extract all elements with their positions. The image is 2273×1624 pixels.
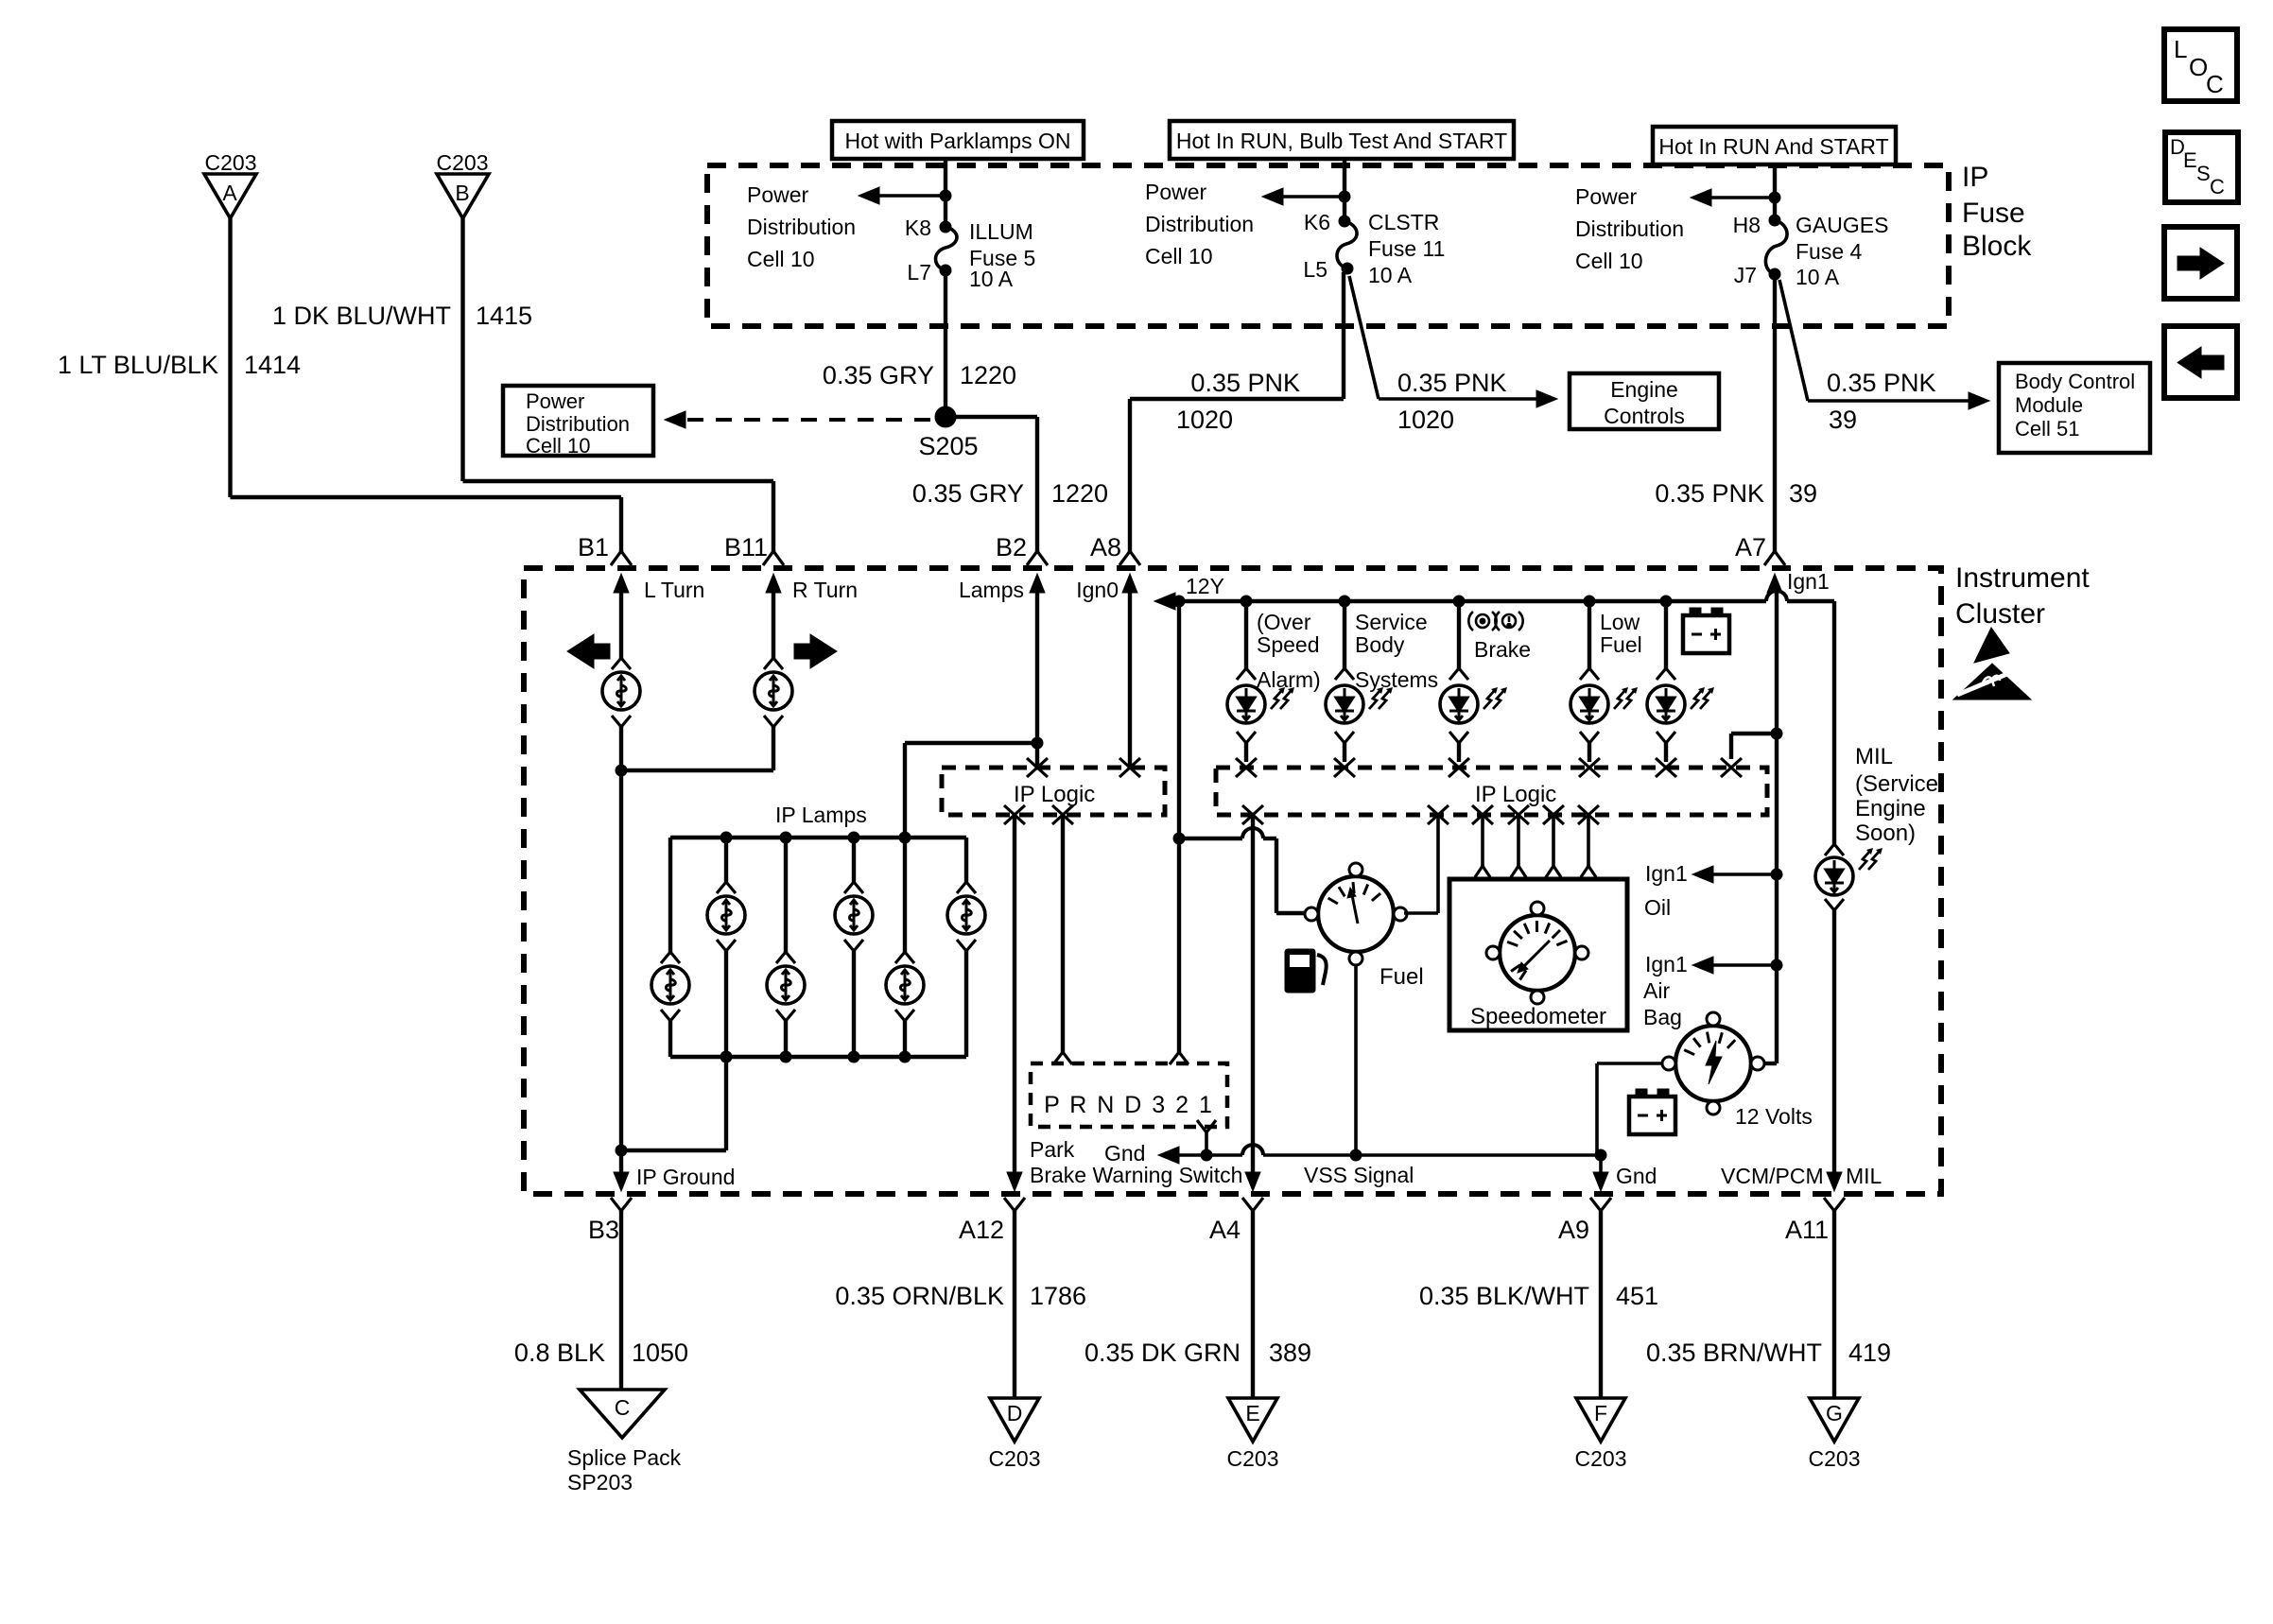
svg-text:Fuel: Fuel (1600, 632, 1642, 657)
wire from Hot In RUN And START to fuse GAUGES (1773, 164, 1777, 220)
svg-text:Low: Low (1600, 610, 1640, 634)
svg-text:J7: J7 (1734, 263, 1757, 287)
dashed wire from S205 to Power Distribution Cell 10 box (687, 418, 934, 422)
MIL wire from 12Y bus (1832, 601, 1836, 844)
svg-text:Fuse: Fuse (1962, 198, 2025, 229)
svg-text:MIL: MIL (1846, 1164, 1883, 1188)
IP Logic box 1 (942, 768, 1165, 815)
svg-text:Speedometer: Speedometer (1470, 1004, 1606, 1029)
wire B3 to splice pack (619, 1211, 623, 1390)
Gnd drop to A9 (1599, 1155, 1603, 1176)
svg-text:IP Logic: IP Logic (1475, 782, 1556, 807)
Ign1 wire from A7 (1775, 588, 1778, 1063)
svg-text:E: E (2183, 148, 2197, 172)
svg-text:ILLUM: ILLUM (969, 219, 1033, 244)
svg-text:A8: A8 (1090, 533, 1121, 561)
wire A9 to connector F (1599, 1211, 1603, 1398)
svg-text:Cell 10: Cell 10 (1575, 249, 1643, 273)
svg-text:C203: C203 (1809, 1446, 1861, 1471)
ESD sensitive device symbol (1974, 628, 2009, 663)
IP lamp column x=831 (low row bulb) (780, 832, 791, 843)
connector triangle D (C203) (990, 1398, 1039, 1442)
12V gauge ground wire (1597, 1062, 1663, 1065)
svg-text:L7: L7 (907, 260, 931, 285)
svg-text:Cluster: Cluster (1955, 598, 2045, 630)
wire from Hot with Parklamps ON to fuse ILLUM (944, 159, 947, 227)
svg-text:A4: A4 (1209, 1216, 1241, 1244)
svg-text:VSS Signal: VSS Signal (1304, 1163, 1414, 1187)
svg-text:GAUGES: GAUGES (1796, 213, 1888, 237)
svg-text:Fuel: Fuel (1379, 964, 1424, 990)
Instrument Cluster dashed outline (524, 568, 1941, 1194)
fuse F4 GAUGES (H8/J7) (1769, 215, 1780, 226)
svg-text:S205: S205 (918, 432, 978, 460)
svg-text:Park: Park (1030, 1137, 1075, 1162)
svg-text:Ign1: Ign1 (1645, 861, 1688, 886)
svg-text:C203: C203 (437, 150, 489, 175)
junction on L Turn wire (616, 765, 627, 776)
svg-text:MIL: MIL (1855, 744, 1893, 769)
svg-text:1220: 1220 (1051, 479, 1108, 508)
svg-text:Cell 10: Cell 10 (1145, 244, 1213, 268)
svg-text:1020: 1020 (1176, 406, 1233, 434)
connector triangle G (C203) (1810, 1398, 1859, 1442)
Ign0 wire into IP Logic (1128, 588, 1132, 768)
svg-text:1 LT BLU/BLK: 1 LT BLU/BLK (58, 351, 218, 379)
telltale LED lamp x=1318 (1241, 596, 1252, 607)
svg-text:A: A (222, 181, 237, 205)
port A7 entry arrow (1767, 574, 1782, 593)
svg-text:P R N D 3 2 1: P R N D 3 2 1 (1044, 1092, 1214, 1118)
svg-text:0.35 PNK: 0.35 PNK (1190, 369, 1300, 397)
svg-text:Cell 10: Cell 10 (526, 434, 590, 458)
Engine Controls box (1570, 373, 1719, 429)
svg-text:Ign1: Ign1 (1787, 569, 1830, 594)
wire 1414 from connector A to B1 (228, 218, 232, 497)
svg-text:Soon): Soon) (1855, 821, 1916, 846)
VSS signal wire from IP Logic to A4 (1251, 815, 1255, 1176)
svg-text:A7: A7 (1735, 533, 1766, 561)
fuel gauge output to IP Logic (1404, 911, 1438, 915)
fuse F11 CLSTR (K6/L5) (1339, 216, 1350, 227)
svg-text:39: 39 (1829, 406, 1857, 434)
Ign1 Oil branch (1771, 869, 1782, 880)
wire A4 to connector E (1251, 1211, 1255, 1398)
connector triangle C to Splice Pack SP203 (580, 1390, 665, 1438)
Ign1 branch into IP Logic box2 (1771, 728, 1782, 739)
left turn block arrow (567, 634, 610, 668)
svg-text:Service: Service (1355, 610, 1428, 634)
left-arrow legend box (2164, 326, 2237, 398)
right turn block arrow (794, 634, 837, 668)
svg-text:1 DK BLU/WHT: 1 DK BLU/WHT (272, 302, 451, 330)
svg-text:1415: 1415 (476, 302, 532, 330)
svg-text:0.35 PNK: 0.35 PNK (1655, 479, 1764, 508)
svg-text:C203: C203 (205, 150, 257, 175)
svg-text:Engine: Engine (1610, 377, 1678, 402)
port A7 chevron at cluster top (1764, 551, 1785, 565)
svg-text:Power: Power (747, 182, 809, 207)
splice S205 (935, 406, 956, 427)
svg-text:IP Ground: IP Ground (636, 1165, 735, 1189)
wire from IP Logic to PRND switch (1061, 815, 1065, 1055)
R Turn wire (772, 588, 775, 658)
port B1 chevron at cluster top (611, 551, 632, 565)
port B11 chevron at cluster top (763, 551, 784, 565)
svg-text:Brake: Brake (1474, 637, 1531, 662)
svg-text:Ign1: Ign1 (1645, 952, 1688, 976)
svg-text:0.35 GRY: 0.35 GRY (823, 361, 934, 389)
IP Fuse Block dashed outline (707, 165, 1949, 326)
svg-text:Hot In RUN, Bulb Test And STAR: Hot In RUN, Bulb Test And START (1176, 129, 1507, 153)
svg-text:1414: 1414 (244, 351, 301, 379)
svg-text:E: E (1245, 1401, 1259, 1425)
PRND321 gear selector dashed box (1031, 1063, 1227, 1127)
fuel gauge (1305, 863, 1407, 965)
Body Control Module Cell 51 box (1999, 363, 2150, 453)
svg-text:0.35 BRN/WHT: 0.35 BRN/WHT (1646, 1339, 1822, 1367)
svg-text:1786: 1786 (1030, 1282, 1086, 1310)
svg-text:1020: 1020 (1397, 406, 1454, 434)
IP Logic box1 bottom connectors (1004, 805, 1025, 824)
svg-text:10 A: 10 A (1796, 265, 1840, 289)
port A8 chevron at cluster top (1119, 551, 1140, 565)
svg-text:12Y: 12Y (1186, 574, 1224, 598)
wire A12 to connector D (1013, 1211, 1016, 1398)
battery telltale icon (1683, 608, 1729, 653)
svg-text:B11: B11 (724, 533, 768, 561)
svg-text:C: C (2206, 70, 2224, 98)
svg-text:Cell 51: Cell 51 (2015, 417, 2079, 441)
svg-text:C203: C203 (1575, 1446, 1627, 1471)
port B2 entry arrow (1030, 574, 1045, 593)
svg-text:K8: K8 (905, 216, 931, 240)
svg-text:B1: B1 (578, 533, 609, 561)
svg-text:Power: Power (526, 389, 584, 413)
svg-text:Lamps: Lamps (959, 578, 1024, 602)
speedometer feed wires from IP Logic (1481, 815, 1484, 866)
svg-text:L Turn: L Turn (644, 578, 704, 602)
svg-text:G: G (1826, 1401, 1843, 1425)
svg-text:IP: IP (1962, 162, 1988, 193)
12Y branch to fuel gauge (1173, 833, 1185, 844)
IP lamp column x=768 (top row bulb) (720, 832, 732, 843)
svg-text:K6: K6 (1304, 210, 1330, 234)
svg-text:IP Logic: IP Logic (1014, 782, 1095, 807)
svg-text:Fuse 4: Fuse 4 (1796, 239, 1863, 264)
svg-text:0.35 DK GRN: 0.35 DK GRN (1084, 1339, 1241, 1367)
IP Logic box2 bottom connectors (1242, 805, 1263, 824)
svg-text:H8: H8 (1733, 213, 1761, 237)
svg-text:Hot In RUN And START: Hot In RUN And START (1658, 134, 1888, 159)
PRND ground chevron (1197, 1120, 1216, 1132)
svg-text:Splice Pack: Splice Pack (567, 1445, 682, 1470)
svg-text:0.35 GRY: 0.35 GRY (912, 479, 1024, 508)
connector triangle E (C203) (1228, 1398, 1277, 1442)
wire 1415 from connector B to B11 (460, 218, 464, 481)
svg-text:B3: B3 (588, 1216, 619, 1244)
svg-text:10 A: 10 A (1368, 263, 1413, 287)
svg-text:F: F (1594, 1401, 1607, 1425)
branch wire from CLSTR fuse to Engine Controls (1349, 276, 1379, 399)
wire from Hot In RUN Bulb Test And START to fuse CLSTR (1343, 159, 1346, 221)
svg-text:Gnd: Gnd (1616, 1164, 1657, 1188)
MIL (Service Engine Soon) LED (1825, 844, 1844, 855)
telltale LED lamp x=1681 (1584, 596, 1595, 607)
svg-text:Body: Body (1355, 632, 1405, 657)
port B2 chevron at cluster top (1027, 551, 1048, 565)
svg-text:C: C (615, 1395, 631, 1420)
12Y drop to PRND switch (1177, 601, 1181, 1055)
svg-text:C203: C203 (1227, 1446, 1279, 1471)
Power Distribution Cell 10 box (left) (503, 386, 653, 456)
IP lamps return to IP Ground wire (720, 1051, 732, 1063)
wire from fuse CLSTR down and left to A8 (1342, 272, 1345, 399)
fuel gauge sender wire to ground bus (1354, 964, 1358, 1155)
svg-text:C: C (2210, 175, 2225, 199)
svg-text:Block: Block (1962, 231, 2032, 262)
svg-text:Body Control: Body Control (2015, 370, 2135, 393)
svg-text:L5: L5 (1303, 257, 1327, 282)
brake telltale icon (1468, 612, 1522, 631)
DESC legend box (2165, 132, 2238, 202)
branch wire from GAUGES fuse to Body Control Module (1779, 280, 1808, 401)
right-arrow legend box (2164, 227, 2237, 299)
svg-text:Speed: Speed (1257, 632, 1320, 657)
feed from Lamps wire to IP lamps bus (1032, 737, 1043, 749)
R Turn indicator lamp (764, 658, 783, 669)
svg-text:Distribution: Distribution (747, 215, 856, 239)
telltale LED lamp x=1543 (1453, 596, 1465, 607)
svg-text:S: S (2196, 162, 2211, 185)
arrow to Power Distribution Cell 10 (fuse 3) (1769, 192, 1780, 203)
svg-text:Cell 10: Cell 10 (747, 247, 815, 271)
svg-text:L: L (2174, 35, 2187, 63)
connector triangle F (C203) (1576, 1398, 1625, 1442)
IP lamp column x=709 (low row bulb) (668, 838, 672, 952)
svg-text:D: D (1007, 1401, 1023, 1425)
arrow to Power Distribution Cell 10 (fuse 2) (1339, 191, 1350, 202)
IP Logic box1 top connectors (1027, 758, 1048, 777)
svg-text:Instrument: Instrument (1955, 562, 2090, 594)
svg-text:Fuse 11: Fuse 11 (1368, 236, 1445, 261)
svg-text:419: 419 (1848, 1339, 1891, 1367)
IP lamps bottom bus (670, 1055, 966, 1059)
svg-text:Power: Power (1575, 184, 1638, 209)
wire from IP Logic to A12 (1013, 815, 1016, 1176)
12Y bus line with arrow (1154, 593, 1175, 610)
svg-text:Engine: Engine (1855, 796, 1926, 821)
Speedometer box (1449, 879, 1627, 1030)
fuel pump icon (1285, 949, 1315, 993)
header box: Hot In RUN, Bulb Test And START (1170, 121, 1514, 159)
svg-text:Systems: Systems (1355, 667, 1438, 692)
svg-text:Alarm): Alarm) (1257, 667, 1321, 692)
Lamps wire into IP Logic (1035, 588, 1039, 768)
LOC legend box (2164, 29, 2237, 101)
svg-text:VCM/PCM: VCM/PCM (1721, 1164, 1824, 1188)
svg-text:A9: A9 (1558, 1216, 1589, 1244)
svg-text:Oil: Oil (1644, 895, 1671, 920)
IP lamps top bus (670, 836, 966, 839)
svg-text:B: B (455, 181, 469, 205)
svg-text:C203: C203 (989, 1446, 1041, 1471)
Gnd bus line with arrow to Park Brake Warning Switch (1158, 1147, 1179, 1164)
port B1 entry arrow (614, 574, 629, 593)
svg-text:IP Lamps: IP Lamps (775, 803, 867, 827)
telltale LED lamp x=1762 (1660, 596, 1672, 607)
wire from fuse GAUGES down to A7 (1773, 274, 1777, 552)
svg-text:451: 451 (1616, 1282, 1658, 1310)
svg-text:389: 389 (1269, 1339, 1311, 1367)
wire from L Turn lamp to ground bus (619, 727, 623, 1150)
svg-text:Brake Warning Switch: Brake Warning Switch (1030, 1163, 1242, 1187)
svg-text:Distribution: Distribution (1145, 212, 1254, 236)
port A8 entry arrow (1122, 574, 1137, 593)
battery icon at 12 Volts gauge (1629, 1089, 1675, 1134)
fuse F5 ILLUM (K8/L7) (940, 221, 951, 233)
IP lamp column x=903 (top row bulb) (848, 832, 859, 843)
header box: Hot with Parklamps ON (832, 121, 1084, 159)
IP Ground arrow to port B3 (619, 1150, 623, 1176)
wire from S205 to B2 (946, 415, 1037, 419)
L Turn wire (619, 588, 623, 658)
12 Volts gauge (1763, 1062, 1777, 1065)
svg-text:1050: 1050 (632, 1339, 688, 1367)
Ign1 Air Bag branch (1771, 959, 1782, 971)
telltale LED lamp x=1422 (1339, 596, 1350, 607)
svg-text:10 A: 10 A (969, 267, 1014, 291)
svg-text:Ign0: Ign0 (1076, 578, 1119, 602)
L Turn indicator lamp (612, 658, 631, 669)
svg-text:Controls: Controls (1604, 404, 1685, 428)
svg-text:(Over: (Over (1257, 610, 1311, 634)
IP Logic box 2 (1216, 768, 1767, 815)
svg-text:Distribution: Distribution (1575, 216, 1684, 241)
svg-text:SP203: SP203 (567, 1470, 633, 1494)
svg-text:B2: B2 (996, 533, 1027, 561)
IP lamp column x=957 (low row bulb) (899, 832, 911, 843)
header box: Hot In RUN And START (1653, 127, 1896, 164)
svg-text:Distribution: Distribution (526, 412, 630, 436)
svg-text:0.35 ORN/BLK: 0.35 ORN/BLK (835, 1282, 1004, 1310)
svg-text:Bag: Bag (1643, 1005, 1682, 1029)
svg-text:39: 39 (1789, 479, 1817, 508)
svg-text:0.35 BLK/WHT: 0.35 BLK/WHT (1419, 1282, 1589, 1310)
port B11 entry arrow (766, 574, 781, 593)
svg-text:1220: 1220 (960, 361, 1016, 389)
svg-text:Module: Module (2015, 393, 2083, 417)
wire from fuse ILLUM down to splice S205 (944, 270, 947, 417)
IP lamp column x=1022 (top row bulb) (964, 838, 968, 882)
svg-text:0.35 PNK: 0.35 PNK (1827, 369, 1936, 397)
MIL wire to A11 (1832, 910, 1836, 1176)
svg-text:0.35 PNK: 0.35 PNK (1397, 369, 1507, 397)
arrow to Power Distribution Cell 10 (fuse 1) (940, 190, 951, 201)
svg-text:A12: A12 (959, 1216, 1004, 1244)
svg-text:A11: A11 (1785, 1216, 1829, 1244)
svg-text:Air: Air (1643, 978, 1670, 1003)
svg-text:CLSTR: CLSTR (1368, 210, 1439, 234)
svg-text:12 Volts: 12 Volts (1735, 1104, 1813, 1129)
svg-text:R Turn: R Turn (792, 578, 858, 602)
svg-text:Power: Power (1145, 180, 1207, 204)
svg-text:Hot with Parklamps ON: Hot with Parklamps ON (844, 129, 1070, 153)
svg-text:0.8 BLK: 0.8 BLK (514, 1339, 605, 1367)
wire from R Turn lamp to L Turn wire (772, 727, 775, 770)
svg-text:(Service: (Service (1855, 771, 1938, 797)
wire A11 to connector G (1832, 1211, 1836, 1398)
